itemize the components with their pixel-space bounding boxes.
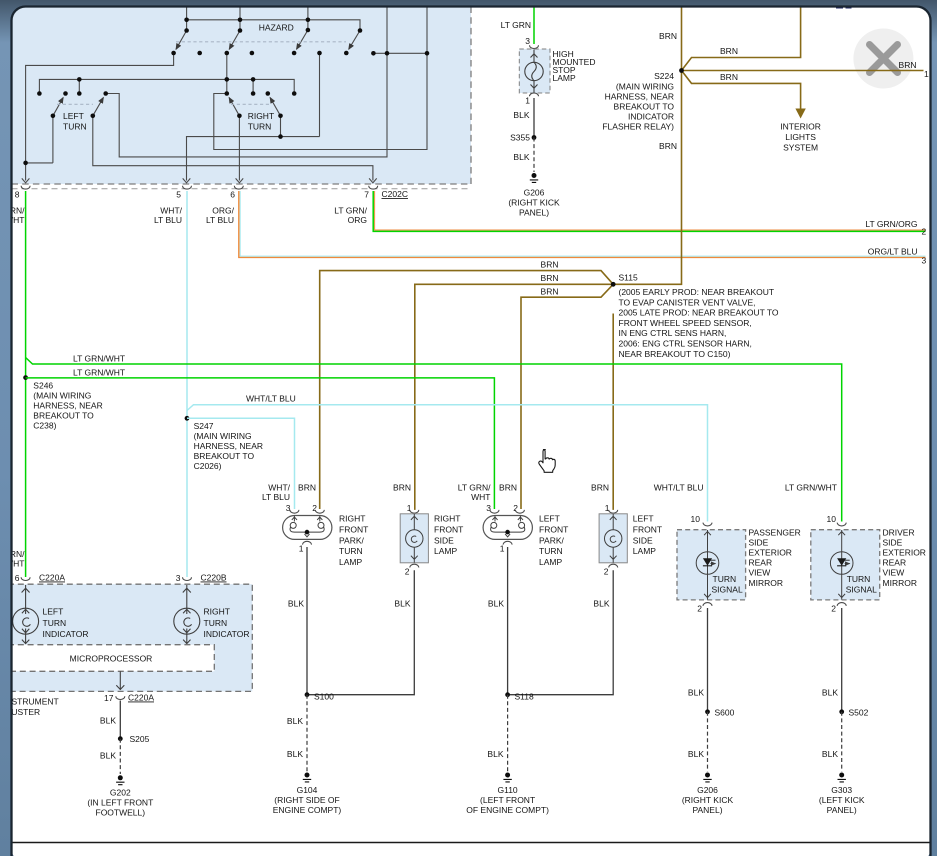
svg-text:(LEFT KICK: (LEFT KICK <box>819 795 865 805</box>
svg-text:S355: S355 <box>510 133 530 143</box>
svg-text:S100: S100 <box>314 692 334 702</box>
svg-text:LT GRN/: LT GRN/ <box>458 483 491 493</box>
connector arrow pin 5 <box>183 178 191 182</box>
mini-bus dots <box>371 51 376 56</box>
svg-text:FLASHER RELAY): FLASHER RELAY) <box>602 122 674 132</box>
svg-text:BREAKOUT TO: BREAKOUT TO <box>194 451 255 461</box>
svg-text:C2026): C2026) <box>194 461 222 471</box>
svg-text:S247: S247 <box>194 421 214 431</box>
svg-text:(RIGHT KICK: (RIGHT KICK <box>682 795 734 805</box>
svg-text:FOOTWELL): FOOTWELL) <box>96 808 146 818</box>
svg-text:LAMP: LAMP <box>339 557 362 567</box>
wire LT GRN to high mounted stop lamp <box>533 7 535 45</box>
svg-text:BRN: BRN <box>899 60 917 70</box>
wire BRN S115 line1 to right front park/turn pin 2 <box>320 271 614 509</box>
svg-text:3: 3 <box>176 573 181 583</box>
wire: lower contact bus y=79.4 <box>39 79 294 93</box>
wire BLK driver mirror to S502 <box>841 608 843 712</box>
svg-text:INDICATOR: INDICATOR <box>628 112 674 122</box>
wire WHT/LT BLU from S247 to right front park/turn pin 3 <box>187 418 295 509</box>
wire BRN from page top elbow into S224 <box>682 7 801 71</box>
svg-text:S224: S224 <box>654 71 674 81</box>
svg-text:TURN: TURN <box>539 546 563 556</box>
svg-text:BLK: BLK <box>513 110 529 120</box>
svg-text:BREAKOUT TO: BREAKOUT TO <box>33 411 94 421</box>
svg-text:WHT: WHT <box>471 492 490 502</box>
wire BRN S115 line2 to right front side lamp pin 1 <box>415 284 613 511</box>
svg-text:EXTERIOR: EXTERIOR <box>883 548 926 558</box>
svg-text:BLK: BLK <box>822 749 838 759</box>
wire: feed verticals from page top <box>187 7 427 54</box>
wire BLK passenger mirror to S600 <box>707 608 709 712</box>
svg-text:SIGNAL: SIGNAL <box>712 585 743 595</box>
svg-text:LT GRN: LT GRN <box>501 20 531 30</box>
svg-text:BRN: BRN <box>541 287 559 297</box>
svg-text:BLK: BLK <box>688 688 704 698</box>
svg-text:BLK: BLK <box>488 599 504 609</box>
svg-text:LIGHTS: LIGHTS <box>785 132 816 142</box>
connector C220A pin 6 cup <box>21 577 30 580</box>
svg-text:(LEFT FRONT: (LEFT FRONT <box>480 795 535 805</box>
svg-text:LT GRN/WHT: LT GRN/WHT <box>73 368 125 378</box>
svg-text:2006: ENG CTRL SENSOR HARN,: 2006: ENG CTRL SENSOR HARN, <box>619 339 752 349</box>
svg-text:BRN: BRN <box>720 72 738 82</box>
svg-text:BLK: BLK <box>288 599 304 609</box>
svg-text:G206: G206 <box>697 785 718 795</box>
svg-text:REAR: REAR <box>883 558 907 568</box>
svg-text:SIDE: SIDE <box>749 537 769 547</box>
svg-text:(RIGHT KICK: (RIGHT KICK <box>508 198 560 208</box>
right turn linkage <box>231 103 269 105</box>
svg-text:8: 8 <box>15 190 20 200</box>
wire: H1 row to pin 5 <box>187 137 320 181</box>
wire BLK stop lamp to S355 <box>533 98 535 138</box>
svg-text:1: 1 <box>299 544 304 554</box>
left turn blade 1 <box>53 98 63 116</box>
close button <box>853 29 913 89</box>
wire: left contact 105.7 jog down to H_c across to x387 riser <box>106 53 387 157</box>
svg-text:HARNESS, NEAR: HARNESS, NEAR <box>33 401 102 411</box>
svg-text:RIGHT: RIGHT <box>434 514 460 524</box>
hazard mechanical linkage <box>176 41 346 43</box>
svg-text:C220A: C220A <box>39 573 65 583</box>
svg-text:BRN: BRN <box>659 31 677 41</box>
splice S355 <box>532 135 537 140</box>
svg-text:WHT/LT BLU: WHT/LT BLU <box>654 483 704 493</box>
stop lamp connector cup <box>530 45 539 48</box>
svg-text:LT GRN/: LT GRN/ <box>334 206 367 216</box>
wire: hazard mini-bus right <box>373 52 427 54</box>
left front side lamp <box>599 503 662 577</box>
svg-text:LEFT: LEFT <box>63 111 84 121</box>
svg-text:BLK: BLK <box>487 749 503 759</box>
svg-text:PASSENGER: PASSENGER <box>749 527 801 537</box>
svg-text:BRN: BRN <box>591 483 609 493</box>
wire: hazard contact 226.8 down to lower bus <box>226 53 228 94</box>
svg-text:LAMP: LAMP <box>539 557 562 567</box>
svg-text:BLK: BLK <box>593 599 609 609</box>
svg-text:FRONT: FRONT <box>339 524 368 534</box>
svg-text:SIGNAL: SIGNAL <box>846 585 877 595</box>
svg-text:G110: G110 <box>498 785 518 795</box>
svg-text:SIDE: SIDE <box>883 537 903 547</box>
turn/hazard switch assembly box <box>12 7 472 185</box>
top edge clipped text remnant <box>836 7 843 9</box>
svg-text:PANEL): PANEL) <box>519 208 549 218</box>
connector arrow pin 8 <box>22 178 30 182</box>
left front park/turn lamp <box>483 503 568 567</box>
right front side lamp <box>400 503 463 577</box>
wire: hazard contact 173.6 down and across to pin 8 drop <box>26 53 174 181</box>
svg-text:HARNESS, NEAR: HARNESS, NEAR <box>605 92 674 102</box>
svg-text:LAMP: LAMP <box>434 546 457 556</box>
svg-text:WHT/: WHT/ <box>160 206 182 216</box>
wire BLK dashed S355 to ground <box>533 138 535 173</box>
wire: right pole2 down to H1 <box>280 116 282 137</box>
svg-text:(RIGHT SIDE OF: (RIGHT SIDE OF <box>274 795 340 805</box>
svg-text:BLK: BLK <box>688 749 704 759</box>
turn contact dots <box>37 91 42 96</box>
svg-text:FRONT: FRONT <box>633 524 662 534</box>
svg-text:HAZARD: HAZARD <box>259 23 294 33</box>
svg-text:PANEL): PANEL) <box>827 805 857 815</box>
right turn blade 1 <box>229 98 239 116</box>
svg-text:WHT: WHT <box>5 215 24 225</box>
svg-text:ORG/: ORG/ <box>212 206 234 216</box>
svg-text:1: 1 <box>525 96 530 106</box>
svg-text:17: 17 <box>104 693 114 703</box>
svg-text:FRONT: FRONT <box>434 524 463 534</box>
svg-text:PARK/: PARK/ <box>339 535 365 545</box>
driver mirror turn signal <box>811 514 926 614</box>
svg-text:3: 3 <box>525 36 530 46</box>
svg-text:LT BLU: LT BLU <box>262 492 290 502</box>
svg-text:(IN LEFT FRONT: (IN LEFT FRONT <box>87 798 153 808</box>
svg-text:BLK: BLK <box>822 688 838 698</box>
wire BLK dashed S502 to G303 <box>841 712 843 772</box>
svg-text:DRIVER: DRIVER <box>883 527 915 537</box>
wire WHT/LT BLU from pin 5 down <box>186 191 188 577</box>
ground G206 bottom <box>703 773 711 782</box>
ground G303 <box>838 773 846 782</box>
svg-text:EXTERIOR: EXTERIOR <box>749 548 792 558</box>
svg-text:(MAIN WIRING: (MAIN WIRING <box>194 431 252 441</box>
svg-text:WHT/LT BLU: WHT/LT BLU <box>246 394 296 404</box>
svg-text:C220A: C220A <box>128 693 154 703</box>
svg-text:LAMP: LAMP <box>553 73 576 83</box>
ground G104 <box>303 773 311 782</box>
splice S118 <box>505 692 510 697</box>
svg-text:RIGHT: RIGHT <box>339 514 365 524</box>
svg-text:TO EVAP CANISTER VENT VALVE,: TO EVAP CANISTER VENT VALVE, <box>619 297 756 307</box>
svg-text:TURN: TURN <box>847 574 871 584</box>
svg-text:LEFT: LEFT <box>43 606 64 616</box>
svg-text:C220B: C220B <box>201 573 227 583</box>
stop lamp element <box>525 50 543 93</box>
wire BLK dashed S205 to G202 <box>119 739 121 774</box>
svg-text:FRONT: FRONT <box>539 524 568 534</box>
svg-text:(2005 EARLY PROD: NEAR BREAKOU: (2005 EARLY PROD: NEAR BREAKOUT <box>619 287 775 297</box>
wire microprocessor output to C220A pin 17 <box>116 671 124 690</box>
right turn indicator lamp <box>174 585 200 644</box>
connector C202C cups <box>21 186 378 189</box>
svg-text:10: 10 <box>691 514 701 524</box>
svg-text:G104: G104 <box>297 785 318 795</box>
svg-text:C202C: C202C <box>382 189 408 199</box>
svg-text:BLK: BLK <box>100 716 116 726</box>
svg-text:S246: S246 <box>33 381 53 391</box>
mouse cursor <box>539 450 555 473</box>
svg-text:BLK: BLK <box>513 152 529 162</box>
svg-text:INDICATOR: INDICATOR <box>204 629 250 639</box>
diagram bottom frame line <box>12 842 931 844</box>
lower bus dots <box>77 77 82 82</box>
wire BLK right park/turn to S100 <box>306 547 308 695</box>
svg-text:LEFT: LEFT <box>539 514 560 524</box>
svg-text:BLK: BLK <box>287 749 303 759</box>
svg-text:2: 2 <box>604 567 609 577</box>
wire LT GRN/WHT from pin 8 down left side <box>25 191 27 577</box>
wire BLK dashed S600 to G206 <box>707 712 709 772</box>
hazard contact dots <box>171 51 176 56</box>
wire: left pole1 to pin8 line <box>52 116 54 163</box>
hazard switch blade 1 <box>176 31 187 50</box>
ground G110 <box>503 773 511 782</box>
hazard switch blade 3 <box>297 30 308 49</box>
wire: left pole2 down along H4 to pin 7 <box>93 116 373 181</box>
ground G202 <box>116 775 124 784</box>
wire BRN bus from page top through S224 <box>613 7 681 285</box>
svg-text:IN ENG CTRL SENS HARN,: IN ENG CTRL SENS HARN, <box>619 328 727 338</box>
svg-text:6: 6 <box>15 573 20 583</box>
svg-text:BRN: BRN <box>659 141 677 151</box>
pole dots <box>184 28 189 33</box>
svg-text:2: 2 <box>922 227 927 237</box>
svg-text:TURN: TURN <box>204 618 228 628</box>
wire BLK right side lamp to S100 <box>307 570 414 695</box>
svg-text:G303: G303 <box>831 785 852 795</box>
svg-text:MICROPROCESSOR: MICROPROCESSOR <box>70 654 153 664</box>
wire BLK dashed S118 to G110 <box>507 695 509 772</box>
svg-text:BRN: BRN <box>393 483 411 493</box>
svg-text:BRN: BRN <box>720 46 738 56</box>
instrument cluster box <box>8 584 252 691</box>
svg-text:(MAIN WIRING: (MAIN WIRING <box>616 82 674 92</box>
svg-text:S118: S118 <box>515 692 534 702</box>
svg-text:MIRROR: MIRROR <box>749 578 783 588</box>
svg-text:SYSTEM: SYSTEM <box>783 143 818 153</box>
wire: hazard top bus <box>187 20 360 31</box>
microprocessor box <box>8 645 214 672</box>
hazard switch blade 2 <box>229 31 240 50</box>
wire: hazard contact 319.5 down to H1 <box>319 53 321 137</box>
svg-text:BREAKOUT TO: BREAKOUT TO <box>614 102 675 112</box>
svg-text:CLUSTER: CLUSTER <box>1 707 41 717</box>
wire BLK left side lamp to S118 <box>508 570 614 695</box>
high mounted stop lamp box <box>519 49 550 93</box>
wire ORG/LT BLU from pin 6 to right page edge <box>239 191 926 257</box>
svg-text:S502: S502 <box>849 708 869 718</box>
svg-text:BRN: BRN <box>541 273 559 283</box>
wire BLK left park/turn to S118 <box>507 547 509 695</box>
svg-text:INDICATOR: INDICATOR <box>43 629 89 639</box>
svg-text:ENGINE COMPT): ENGINE COMPT) <box>273 805 342 815</box>
splice S205 <box>118 736 123 741</box>
stop lamp bottom cup <box>530 93 539 96</box>
svg-text:SIDE: SIDE <box>434 535 454 545</box>
splice S600 <box>705 709 710 714</box>
pin8 drop junction dot <box>23 161 28 166</box>
svg-text:5: 5 <box>176 190 181 200</box>
connector arrow pin 7 <box>369 178 377 182</box>
svg-text:LT GRN/WHT: LT GRN/WHT <box>785 483 837 493</box>
passenger mirror turn signal <box>677 514 801 614</box>
wire BLK pin17 to S205 <box>119 701 121 739</box>
svg-text:1: 1 <box>924 69 929 79</box>
splice S247 <box>185 416 190 421</box>
splice S224 <box>679 68 684 73</box>
right turn blade 2 <box>270 98 280 116</box>
svg-text:G202: G202 <box>110 788 131 798</box>
connector arrow pin 6 <box>236 178 244 182</box>
left turn blade 2 <box>93 98 104 116</box>
svg-text:G206: G206 <box>524 188 545 198</box>
svg-text:BLK: BLK <box>287 716 303 726</box>
svg-text:SIDE: SIDE <box>633 535 653 545</box>
svg-text:S115: S115 <box>619 273 638 283</box>
wire WHT/LT BLU branch to passenger mirror <box>187 405 708 522</box>
svg-text:2: 2 <box>831 604 836 614</box>
svg-text:OF ENGINE COMPT): OF ENGINE COMPT) <box>466 805 549 815</box>
wire: right contact 226.8 jog down to H_b across to x427 riser <box>214 53 427 149</box>
connector C220A pin 17 cup <box>116 696 125 699</box>
svg-text:WHT: WHT <box>5 559 24 569</box>
wire BRN S224 to interior lights system arrow <box>682 71 801 111</box>
svg-text:PANEL): PANEL) <box>692 805 722 815</box>
svg-text:MIRROR: MIRROR <box>883 578 917 588</box>
svg-text:WHT/: WHT/ <box>268 483 290 493</box>
wire BRN S224 to right page edge pin 1 <box>682 70 924 72</box>
left turn linkage <box>57 103 93 105</box>
svg-text:RIGHT: RIGHT <box>248 111 274 121</box>
svg-text:LT GRN/ORG: LT GRN/ORG <box>865 219 917 229</box>
splice S502 <box>839 709 844 714</box>
wire: right pole1 down to pin 6 <box>238 116 240 181</box>
svg-text:10: 10 <box>827 514 837 524</box>
svg-text:S205: S205 <box>130 734 150 744</box>
ground G206 (right kick panel) symbol <box>530 173 538 182</box>
svg-text:RIGHT: RIGHT <box>204 606 230 616</box>
left turn indicator lamp <box>13 585 39 644</box>
svg-text:BRN: BRN <box>541 260 559 270</box>
right front park/turn lamp <box>283 503 369 567</box>
hazard switch blade 4 <box>349 31 360 50</box>
splice S246 <box>23 375 28 380</box>
svg-text:TURN: TURN <box>63 122 87 132</box>
svg-text:REAR: REAR <box>749 558 773 568</box>
wire BRN S115 down to left front side lamp pin 1 <box>612 314 614 512</box>
wire LT GRN/WHT lower from S246 to left front park/turn pin 3 <box>26 378 495 509</box>
svg-text:BRN: BRN <box>298 483 316 493</box>
svg-text:ORG: ORG <box>348 215 367 225</box>
wire LT GRN/WHT upper branch to driver mirror <box>26 358 842 522</box>
wire BLK dashed S100 to G104 <box>306 695 308 772</box>
svg-text:LT BLU: LT BLU <box>154 215 182 225</box>
svg-text:LT GRN/WHT: LT GRN/WHT <box>73 354 125 364</box>
svg-text:VIEW: VIEW <box>749 568 771 578</box>
svg-text:ORG/LT BLU: ORG/LT BLU <box>868 247 918 257</box>
svg-text:BLK: BLK <box>100 751 116 761</box>
svg-text:7: 7 <box>364 190 369 200</box>
wire BRN S115 line3 to left front park/turn pin 2 <box>521 284 613 509</box>
svg-text:HARNESS, NEAR: HARNESS, NEAR <box>194 441 263 451</box>
svg-text:TURN: TURN <box>43 618 67 628</box>
turn pole dots <box>51 114 56 119</box>
svg-text:LT BLU: LT BLU <box>206 215 234 225</box>
H1 junction dot <box>278 134 283 139</box>
wire LT GRN/ORG from pin 7 to right page edge <box>373 191 925 231</box>
splice S100 <box>305 692 310 697</box>
svg-text:C238): C238) <box>33 421 56 431</box>
connector C202C dashed line <box>12 188 471 190</box>
junction dots: hazard bus <box>23 18 429 166</box>
svg-text:INTERIOR: INTERIOR <box>780 122 821 132</box>
svg-text:LEFT: LEFT <box>633 514 654 524</box>
svg-text:NEAR BREAKOUT TO C150): NEAR BREAKOUT TO C150) <box>619 349 731 359</box>
svg-text:6: 6 <box>230 190 235 200</box>
svg-text:TURN: TURN <box>713 574 737 584</box>
svg-text:TURN: TURN <box>339 546 363 556</box>
svg-text:2: 2 <box>405 567 410 577</box>
svg-text:LAMP: LAMP <box>633 546 656 556</box>
svg-text:2: 2 <box>697 604 702 614</box>
svg-text:(MAIN WIRING: (MAIN WIRING <box>33 391 91 401</box>
svg-text:VIEW: VIEW <box>883 568 905 578</box>
svg-text:2005 LATE PROD: NEAR BREAKOUT: 2005 LATE PROD: NEAR BREAKOUT TO <box>619 308 779 318</box>
svg-text:PARK/: PARK/ <box>539 535 565 545</box>
svg-text:BRN: BRN <box>499 483 517 493</box>
svg-text:FRONT WHEEL SPEED SENSOR,: FRONT WHEEL SPEED SENSOR, <box>619 318 752 328</box>
svg-text:TURN: TURN <box>248 122 272 132</box>
svg-text:3: 3 <box>922 256 927 266</box>
svg-text:S600: S600 <box>715 708 735 718</box>
connector C220B pin 3 cup <box>183 577 192 580</box>
svg-text:BLK: BLK <box>394 599 410 609</box>
splice S115 <box>611 282 616 287</box>
svg-text:1: 1 <box>500 544 505 554</box>
